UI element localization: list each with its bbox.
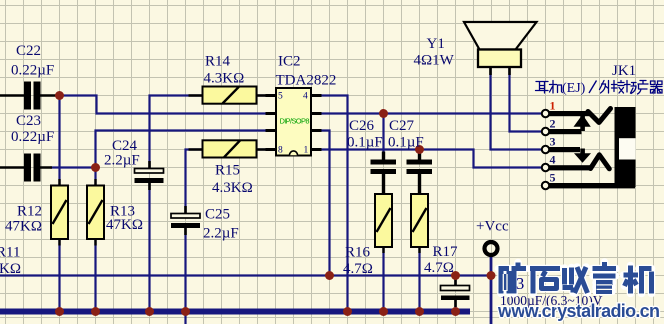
capacitor C3 1000uF [441,278,470,307]
wire R12 bottom to bus [58,239,60,312]
svg-text:IC2: IC2 [278,54,301,70]
wire 1000uF cap leads [454,276,456,312]
svg-text:C25: C25 [205,207,230,223]
svg-text:2: 2 [550,117,556,131]
junction R16/bus [379,307,388,316]
wire Vcc column to bottom edge [490,257,493,324]
wire C23 to junction [50,166,96,168]
svg-text:47KΩ: 47KΩ [106,217,143,233]
jack JK1 pin 1 bar [549,111,589,116]
svg-text:C22: C22 [16,43,41,59]
capacitor C25 [171,206,200,235]
jack JK1 pin 5 bar [549,183,635,188]
jack JK1 pin 3 bar [549,147,580,152]
IC pin stubs [266,96,322,150]
机 [550,81,563,94]
wire C24 bottom to bus [148,183,150,312]
jack switch arrow bottom [580,149,585,156]
svg-text:Y1: Y1 [427,36,445,52]
IC2 notch [290,151,298,155]
junction R17/bus [415,307,424,316]
svg-text:DIP/SOP8: DIP/SOP8 [280,117,310,126]
connector JK1 jack [542,99,636,190]
wire junction down to R13 [94,168,96,187]
wire R13 bottom to bus [94,239,96,312]
capacitor C22 [0,82,58,110]
wire C27 column [418,150,420,312]
jack JK1 pin 1 terminal circle [542,110,549,117]
capacitor C24 [135,161,164,190]
junction R13/bus [91,307,100,316]
resistor R17 [411,188,428,253]
wire C26 column [382,114,384,312]
wire speaker right to JK1 pin2 [510,66,543,132]
耳 [536,82,549,94]
junction R12/bus [55,307,64,316]
svg-text:JK1: JK1 [612,63,636,79]
wire junction up to IC pin7 [96,131,278,168]
svg-text:0.1µF: 0.1µF [388,135,424,151]
wire IC pin3 to JK1 pin1 [310,112,543,114]
capacitor C27 [407,153,433,194]
watermark glyph inner white slits [503,274,612,291]
junction C3/Vcc rail [451,271,460,280]
svg-text:5: 5 [550,171,556,185]
wire Vcc rail [0,274,491,276]
svg-text:C23: C23 [16,113,41,129]
外 [600,81,609,94]
wire IC pin2 down to Vcc rail [310,131,330,276]
capacitor C26 [371,152,397,195]
接 [612,81,625,94]
wire R15 right to IC pin8 [252,148,278,150]
svg-text:0.22µF: 0.22µF [11,63,54,79]
svg-text:2.2µF: 2.2µF [203,226,239,242]
speaker Y1 [464,22,537,75]
resistor R15 [189,140,277,157]
svg-text:3: 3 [516,274,524,293]
svg-text:(EJ): (EJ) [562,81,586,96]
jack JK1 pin 2 terminal circle [542,128,549,135]
svg-text:R14: R14 [205,54,231,70]
junction IC pin2/Vcc rail [325,271,334,280]
IC IC2 TDA2822 body [276,88,311,156]
junction C22/R12 node [55,91,64,100]
svg-text:0.1µF: 0.1µF [347,135,383,151]
resistor R13 [87,179,104,246]
svg-text:R17: R17 [433,244,459,260]
svg-text:1: 1 [550,99,556,113]
svg-text:R16: R16 [345,245,371,261]
wire C22 junction down to R12 [58,96,60,187]
junction IC pin4 wire/bus [343,307,352,316]
jack JK1 pin 4 bar [549,165,592,170]
svg-text:4.7Ω: 4.7Ω [424,260,454,276]
svg-text:8: 8 [278,146,283,156]
capacitor C23 [0,154,52,182]
ground bus [0,309,470,315]
svg-text:4: 4 [550,153,556,167]
svg-text:4.3KΩ: 4.3KΩ [212,180,253,196]
resistor R14 [189,87,277,104]
声 [638,81,649,95]
svg-text:C26: C26 [349,118,375,134]
svg-text:47KΩ: 47KΩ [0,261,21,277]
wire net C22 to IC pin6 [60,96,278,114]
svg-text:R15: R15 [215,163,240,179]
svg-text:+Vcc: +Vcc [476,219,509,235]
junction IC pin3/C26 node [379,109,388,118]
svg-text:0.22µF: 0.22µF [11,129,54,145]
svg-text:4Ω1W: 4Ω1W [414,53,455,69]
svg-text:TDA2822: TDA2822 [276,73,337,89]
wire IC pin4 down to bus [310,96,348,312]
wire R14 right to IC pin5 [252,94,278,96]
器 [651,81,663,93]
junction C3/bus [451,307,460,316]
resistor R16 [375,188,392,253]
jack JK1 pin 4 terminal circle [542,164,549,171]
jack JK1 pin 2 bar [549,129,582,134]
junction C24/bus [145,307,154,316]
jack JK1 pin 5 terminal circle [542,182,549,189]
header text 耳机(EJ)/外接扬声器 [536,81,663,95]
svg-text:www.crystalradio.cn: www.crystalradio.cn [497,301,660,321]
junction +Vcc/Vcc rail [487,271,496,280]
wire speaker left to JK1 pin3 [491,66,543,150]
jack JK1 pin 3 terminal circle [542,146,549,153]
svg-text:R11: R11 [0,245,20,261]
wire R14 left lead to C24 [150,96,204,169]
watermark 矿石收音机 [499,262,652,294]
svg-text:4.7Ω: 4.7Ω [343,261,373,277]
svg-text:5: 5 [278,92,283,102]
svg-text:1: 1 [304,146,309,156]
svg-text:3: 3 [550,135,556,149]
wire C25 bottom through bus to edge [184,228,186,324]
jack switch arrow top [580,114,585,131]
svg-text:4: 4 [303,92,308,102]
svg-text:R12: R12 [17,204,42,220]
svg-text:4.3KΩ: 4.3KΩ [204,71,245,87]
wire R15 left to C25 [186,150,204,214]
jack body [615,107,636,187]
junction C25/bus [181,307,190,316]
svg-text:47KΩ: 47KΩ [5,219,42,235]
wire IC pin1 to JK1 pin4 [310,150,543,168]
扬 [625,81,637,94]
power symbol +Vcc ring [485,242,498,255]
svg-text:2.2µF: 2.2µF [104,153,140,169]
junction C23/R13 node [91,163,100,172]
resistor R12 [51,179,68,246]
svg-text:C27: C27 [389,118,415,134]
junction IC pin1/C27 node [415,145,424,154]
